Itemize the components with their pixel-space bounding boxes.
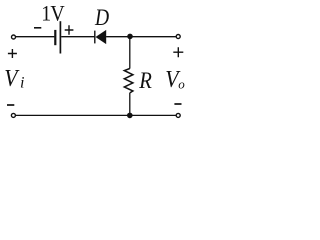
label 1 V: [41, 1, 51, 26]
diode D triangle: [96, 30, 107, 44]
plus sign Vo top-right: [173, 47, 183, 57]
plus sign Vi top-left: [8, 49, 17, 58]
svg-text:o: o: [178, 76, 185, 91]
label D: [94, 4, 110, 30]
label Vi: [4, 65, 20, 91]
diode D cathode bar: [94, 31, 96, 44]
wire top-left to battery: [16, 36, 55, 38]
wire diode to top-right terminal: [106, 36, 176, 38]
battery minus sign: [34, 27, 41, 29]
battery positive plate (long bar): [59, 21, 61, 53]
battery plus sign: [65, 25, 74, 35]
minus sign Vo bottom-right: [174, 103, 181, 105]
svg-text:D: D: [94, 4, 110, 30]
terminal top-left: [12, 35, 16, 39]
terminal top-right: [176, 35, 180, 39]
junction dot bottom: [127, 113, 133, 119]
minus sign Vi bottom-left: [7, 104, 14, 106]
wire resistor to bottom junction: [129, 93, 131, 116]
wire battery to diode: [61, 36, 94, 38]
bottom wire: [16, 114, 176, 116]
junction dot top: [127, 34, 133, 40]
svg-text:i: i: [20, 75, 24, 92]
resistor R zigzag: [124, 69, 133, 93]
battery negative plate (short bar): [54, 30, 56, 45]
wire junction down to resistor: [129, 36, 131, 68]
svg-text:V: V: [50, 1, 64, 26]
terminal bottom-left: [11, 113, 15, 117]
label Vo: [165, 66, 181, 92]
terminal bottom-right: [176, 113, 180, 117]
svg-text:R: R: [138, 67, 152, 94]
label R: [138, 67, 152, 94]
